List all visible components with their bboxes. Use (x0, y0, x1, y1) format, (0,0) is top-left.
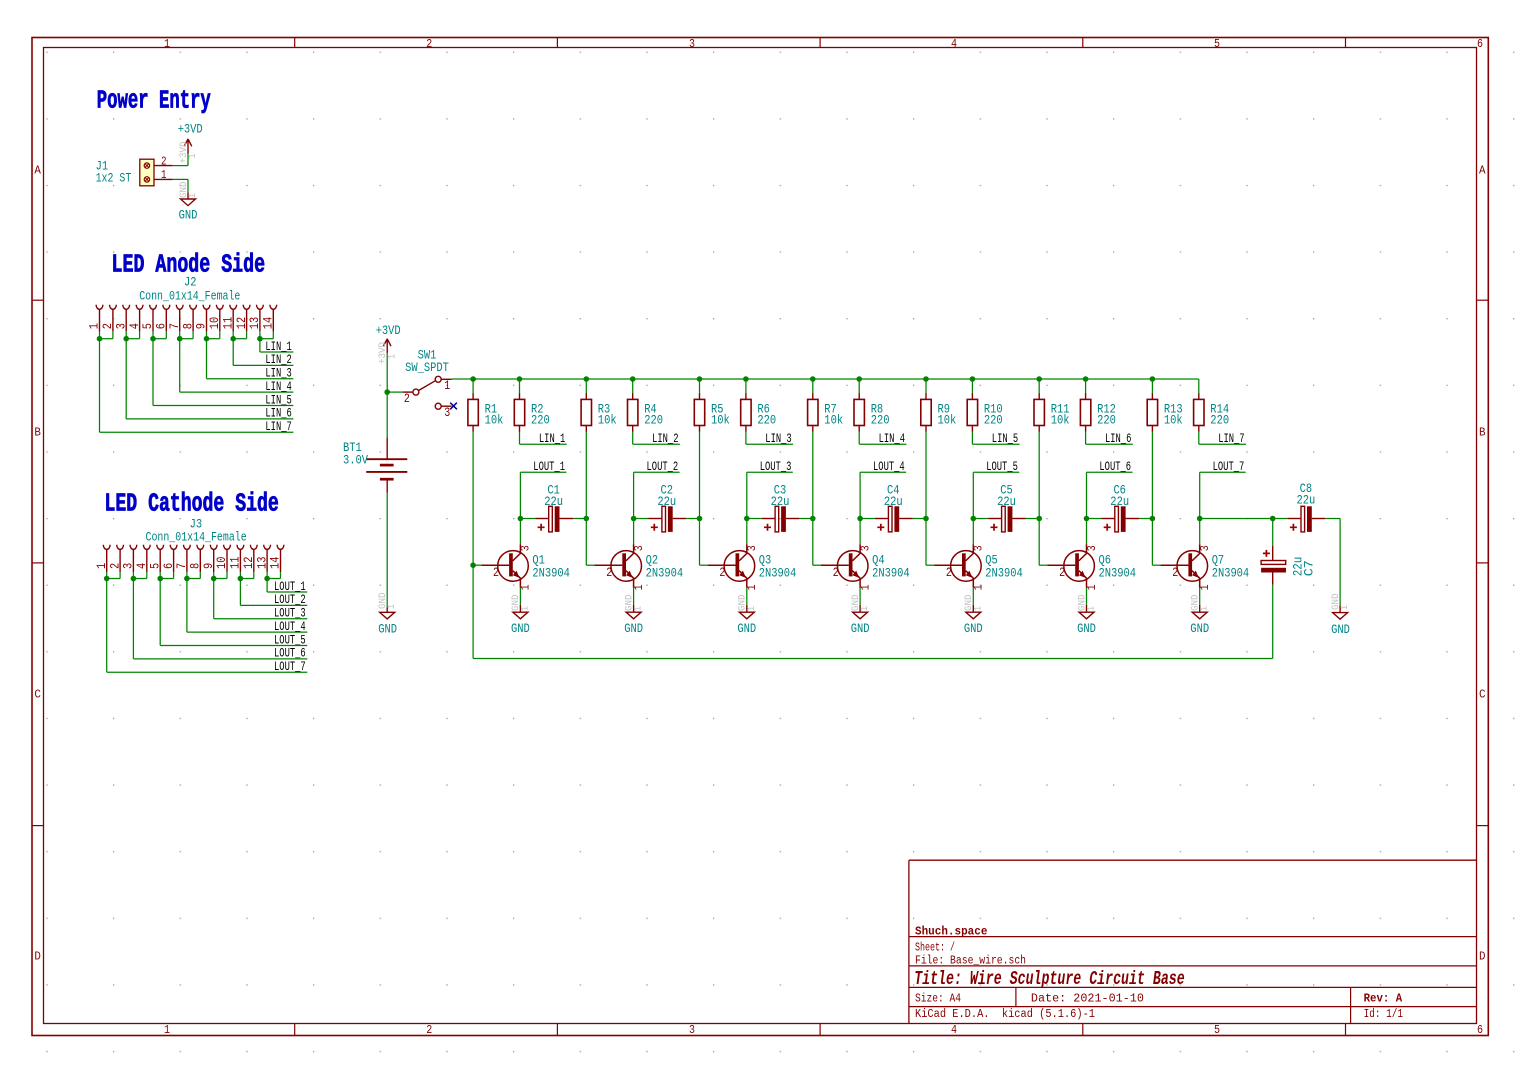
svg-text:LOUT_5: LOUT_5 (986, 459, 1018, 474)
svg-text:Date: 2021-01-10: Date: 2021-01-10 (1031, 993, 1144, 1006)
svg-text:LIN_1: LIN_1 (539, 431, 566, 446)
connector J3 (103, 545, 284, 572)
svg-text:LED Cathode Side: LED Cathode Side (105, 490, 279, 519)
capacitor C5 22u (988, 518, 1001, 520)
transistor Q7 2N3904 (1177, 551, 1208, 582)
svg-text:C: C (1479, 689, 1486, 702)
wire R11 to Q6 base (1039, 432, 1047, 565)
resistor R1 10k (468, 399, 478, 425)
svg-text:J2: J2 (184, 275, 197, 290)
svg-text:2: 2 (719, 565, 725, 580)
junction J3 pin7 (184, 576, 190, 582)
svg-text:2N3904: 2N3904 (872, 565, 910, 580)
ground GND (Q4) (859, 605, 861, 612)
resistor R13 10k (1147, 399, 1157, 425)
svg-text:220: 220 (757, 413, 776, 428)
svg-text:10k: 10k (824, 413, 843, 428)
svg-text:GND: GND (1077, 621, 1096, 636)
resistor R9 10k (921, 399, 931, 425)
svg-text:220: 220 (644, 413, 663, 428)
wire R13 to Q7 base (1152, 432, 1160, 565)
svg-text:Title: Wire Sculpture Circuit: Title: Wire Sculpture Circuit Base (914, 968, 1184, 990)
wire R2 to LIN_1 (520, 432, 567, 444)
capacitor C8 22u (1288, 518, 1301, 520)
junction J3 pin11 (238, 576, 244, 582)
junction cap C1 right (584, 516, 590, 522)
wire R4 to LIN_2 (633, 432, 680, 444)
wire SW1 pin1 to rail (452, 378, 474, 380)
svg-text:GND: GND (1190, 621, 1209, 636)
wire junction to SW1 pin2 (387, 391, 402, 393)
svg-text:6: 6 (1477, 1024, 1483, 1037)
svg-text:22u: 22u (771, 494, 790, 509)
svg-text:+3VD: +3VD (376, 323, 401, 338)
transistor Q4 2N3904 (837, 551, 868, 582)
svg-text:LOUT_3: LOUT_3 (274, 606, 306, 621)
wire J2 pin7-pin8 pair (180, 331, 294, 392)
svg-text:Conn_01x14_Female: Conn_01x14_Female (146, 530, 247, 545)
svg-text:1: 1 (161, 168, 167, 182)
svg-text:14: 14 (268, 556, 283, 569)
junction rail at R5 (697, 376, 703, 382)
svg-text:Size: A4: Size: A4 (915, 993, 961, 1006)
svg-text:3.0V: 3.0V (343, 453, 368, 468)
wire +3VD to junction (386, 353, 388, 392)
junction J3 pin3 (131, 576, 137, 582)
resistor R3 10k (581, 399, 591, 425)
svg-text:1: 1 (1339, 605, 1351, 610)
svg-text:4: 4 (951, 1024, 957, 1037)
resistor R12 220 (1080, 399, 1090, 425)
svg-text:LIN_5: LIN_5 (992, 431, 1018, 446)
battery BT1 (366, 438, 407, 493)
wire rail to R13 (1151, 379, 1153, 393)
wire rail to R8 (858, 379, 860, 393)
capacitor C3 22u (762, 518, 775, 520)
wire C7 bottom to bus (1272, 585, 1274, 659)
wire top rail (473, 378, 1199, 380)
J2 pin numbers (87, 317, 276, 330)
wire R12 to LIN_6 (1086, 432, 1133, 444)
wire J2 pin5-pin6 pair (153, 331, 293, 405)
svg-text:14: 14 (261, 317, 276, 330)
svg-text:1: 1 (187, 193, 199, 198)
resistor R5 10k (694, 399, 704, 425)
svg-text:5: 5 (1214, 38, 1220, 51)
svg-text:File: Base_wire.sch: File: Base_wire.sch (915, 955, 1026, 968)
connector J2 (96, 305, 277, 332)
svg-text:LOUT_1: LOUT_1 (533, 459, 565, 474)
wire emitter Q4 to GND (859, 588, 861, 605)
junction J3 pin13 (264, 576, 270, 582)
svg-text:1: 1 (386, 604, 398, 609)
svg-text:1: 1 (746, 606, 758, 611)
svg-text:Power Entry: Power Entry (97, 86, 211, 115)
wire cap C3 left (747, 518, 762, 520)
wire rail to R3 (585, 379, 587, 393)
junction cap C4 right (923, 516, 929, 522)
wire J3 pin11-pin12 pair (240, 572, 307, 605)
transistor Q1 2N3904 (498, 551, 529, 582)
svg-text:GND: GND (511, 621, 530, 636)
wire junction to BT1 (386, 392, 388, 438)
wire label LOUT_6 stub (1087, 472, 1133, 518)
wire J2 pin9-pin10 pair (207, 331, 294, 378)
svg-text:GND: GND (964, 621, 983, 636)
junction rail at R4 (630, 376, 636, 382)
wire BT1 to GND (386, 493, 388, 608)
svg-text:LIN_3: LIN_3 (765, 431, 791, 446)
svg-text:5: 5 (1214, 1024, 1220, 1037)
capacitor C2 22u (649, 518, 662, 520)
wire cap C2 left (634, 518, 649, 520)
svg-text:3: 3 (1085, 545, 1099, 551)
wire cap C4 left (860, 518, 875, 520)
wire emitter Q5 to GND (972, 588, 974, 605)
capacitor C1 22u (535, 518, 548, 520)
power +3VD (J1) (184, 139, 192, 154)
svg-text:Shuch.space: Shuch.space (915, 925, 987, 939)
svg-text:GND: GND (179, 207, 198, 222)
wire rail to R4 (632, 379, 634, 393)
wire cap C2 right to R3 column (686, 518, 699, 520)
wire collector Q4 (859, 519, 861, 545)
wire label LOUT_3 stub (747, 472, 793, 518)
svg-text:220: 220 (871, 413, 890, 428)
junction J2 pin3 (123, 336, 129, 342)
wire label LOUT_2 stub (634, 472, 680, 518)
transistor Q3 2N3904 (724, 551, 755, 582)
connector J1 (140, 159, 173, 186)
wire base pin Q1 (481, 564, 509, 566)
svg-text:220: 220 (1210, 413, 1229, 428)
junction rail at R10 (970, 376, 976, 382)
wire cap C1 left (520, 518, 535, 520)
wire collector Q7 (1199, 519, 1201, 545)
svg-text:LIN_5: LIN_5 (265, 392, 291, 407)
svg-text:2: 2 (833, 565, 839, 580)
svg-text:2N3904: 2N3904 (532, 565, 570, 580)
svg-text:10k: 10k (938, 413, 957, 428)
junction rail at R2 (517, 376, 523, 382)
svg-text:C7: C7 (1302, 560, 1317, 576)
junction C7 top / C8 (1270, 516, 1276, 522)
svg-text:3: 3 (519, 545, 533, 551)
svg-text:+3VD: +3VD (178, 142, 190, 164)
resistor R7 10k (808, 399, 818, 425)
svg-text:LOUT_1: LOUT_1 (274, 579, 306, 594)
wire base pin Q5 (934, 564, 962, 566)
svg-text:LIN_7: LIN_7 (1218, 431, 1244, 446)
resistor R14 220 (1194, 399, 1204, 425)
svg-text:LOUT_4: LOUT_4 (873, 459, 905, 474)
svg-text:GND: GND (737, 621, 756, 636)
svg-text:2: 2 (946, 565, 952, 580)
transistor Q6 2N3904 (1064, 551, 1095, 582)
frame column numbers top (164, 38, 1483, 51)
wire R3 to Q2 base (586, 432, 594, 565)
wire J3 pin1-pin2 pair (107, 572, 308, 672)
ground GND (Q3) (746, 605, 748, 612)
frame column numbers bottom (164, 1024, 1483, 1037)
junction rail at R3 (584, 376, 590, 382)
svg-text:220: 220 (1097, 413, 1116, 428)
svg-text:4: 4 (951, 38, 957, 51)
svg-text:SW_SPDT: SW_SPDT (405, 360, 449, 375)
wire rail to R9 (925, 379, 927, 393)
junction rail at R13 (1150, 376, 1156, 382)
svg-text:1: 1 (972, 606, 984, 611)
junction J2 pin1 (97, 336, 103, 342)
svg-text:D: D (1479, 951, 1486, 964)
junction cap C6 right (1150, 516, 1156, 522)
svg-text:3: 3 (745, 545, 759, 551)
switch SW1 (403, 376, 452, 409)
svg-text:10k: 10k (1051, 413, 1070, 428)
wire collector Q6 (1086, 519, 1088, 545)
wire bottom bus (473, 658, 1273, 660)
svg-text:2N3904: 2N3904 (985, 565, 1023, 580)
wire base pin Q2 (595, 564, 623, 566)
wire emitter Q1 to GND (519, 588, 521, 605)
svg-text:1: 1 (164, 1024, 170, 1037)
svg-text:LOUT_2: LOUT_2 (274, 592, 306, 607)
wire emitter Q6 to GND (1086, 588, 1088, 605)
junction cap row at LOUT_1 (518, 516, 524, 522)
svg-text:1: 1 (633, 606, 645, 611)
wire R9 to Q5 base (926, 432, 934, 565)
ground GND (Q6) (1086, 605, 1088, 612)
wire J3 pin7-pin8 pair (187, 572, 307, 632)
svg-text:LOUT_5: LOUT_5 (274, 632, 306, 647)
svg-text:Rev: A: Rev: A (1364, 992, 1403, 1006)
svg-text:A: A (1479, 165, 1486, 178)
wire J3 pin13-pin14 pair (267, 572, 307, 592)
frame row letters left (34, 165, 41, 964)
resistor R11 10k (1034, 399, 1044, 425)
svg-text:6: 6 (1477, 38, 1483, 51)
junction cap row at LOUT_5 (971, 516, 977, 522)
svg-text:2N3904: 2N3904 (1212, 565, 1250, 580)
wire rail to R11 (1038, 379, 1040, 393)
svg-text:LOUT_6: LOUT_6 (274, 646, 306, 661)
svg-text:2N3904: 2N3904 (646, 565, 684, 580)
wire collector Q5 (972, 519, 974, 545)
svg-text:LIN_2: LIN_2 (652, 431, 678, 446)
wire base pin Q6 (1047, 564, 1075, 566)
wire cap C5 left (973, 518, 988, 520)
wire R1 to bottom bus / Q1 base tap (472, 432, 474, 659)
wire cap C6 right to R11 column (1139, 518, 1152, 520)
wire base pin Q7 (1161, 564, 1189, 566)
wire rail to R5 (699, 379, 701, 393)
title block box (909, 860, 1477, 1023)
svg-text:3: 3 (858, 545, 872, 551)
svg-text:Conn_01x14_Female: Conn_01x14_Female (139, 289, 240, 304)
svg-text:LOUT_7: LOUT_7 (1213, 459, 1245, 474)
wire label LOUT_5 stub (973, 472, 1019, 518)
wire R14 to LIN_7 (1199, 432, 1246, 444)
transistor Q2 2N3904 (611, 551, 642, 582)
wire cap C1 right to R1 column (573, 518, 586, 520)
junction cap row at LOUT_6 (1084, 516, 1090, 522)
capacitor C7 22u (vertical) (1261, 519, 1286, 585)
svg-text:2: 2 (493, 565, 499, 580)
resistor R6 220 (741, 399, 751, 425)
svg-text:3: 3 (632, 545, 646, 551)
junction cap row at LOUT_7 (1197, 516, 1203, 522)
wire J2 pin1-pin2 pair (100, 331, 294, 432)
svg-text:B: B (1479, 427, 1486, 440)
svg-text:1: 1 (1199, 606, 1211, 611)
wire cap C3 right to R5 column (799, 518, 812, 520)
junction J2 pin7 (177, 336, 183, 342)
svg-text:3: 3 (972, 545, 986, 551)
svg-text:1: 1 (519, 606, 531, 611)
svg-text:2: 2 (426, 1024, 432, 1037)
svg-text:2: 2 (1172, 565, 1178, 580)
resistor R8 220 (854, 399, 864, 425)
junction rail at R8 (856, 376, 862, 382)
wire J1 pin1 to GND (173, 179, 188, 192)
svg-text:KiCad E.D.A. kicad (5.1.6)-1: KiCad E.D.A. kicad (5.1.6)-1 (915, 1008, 1095, 1021)
wire rail to R10 (971, 379, 973, 393)
svg-text:LOUT_2: LOUT_2 (647, 459, 679, 474)
ground GND (Q2) (633, 605, 635, 612)
wire rail to R1 (472, 379, 474, 393)
wire label LOUT_4 stub (860, 472, 906, 518)
svg-text:1: 1 (164, 38, 170, 51)
ground GND (C8) (1339, 606, 1341, 613)
svg-text:1: 1 (444, 378, 450, 393)
wire J3 pin5-pin6 pair (160, 572, 307, 645)
wire emitter Q2 to GND (633, 588, 635, 605)
junction at +3VD/SW1/BT1 (384, 389, 390, 395)
wire J3 pin3-pin4 pair (133, 572, 307, 659)
junction cap row at LOUT_3 (744, 516, 750, 522)
power +3VD (main) (383, 339, 391, 354)
svg-text:22u: 22u (1297, 493, 1316, 508)
svg-text:GND: GND (624, 621, 643, 636)
wire rail to R2 (519, 379, 521, 393)
frame row letters right (1479, 165, 1486, 964)
svg-text:10k: 10k (485, 413, 504, 428)
wire label LOUT_1 stub (520, 472, 566, 518)
wire collector Q2 (633, 519, 635, 545)
wire R8 to LIN_4 (859, 432, 906, 444)
svg-text:22u: 22u (544, 494, 563, 509)
ground GND (BT1) (386, 607, 388, 612)
wire rail to R7 (812, 379, 814, 393)
svg-text:LOUT_3: LOUT_3 (760, 459, 792, 474)
svg-text:22u: 22u (1110, 494, 1129, 509)
junction cap C3 right (810, 516, 816, 522)
svg-text:LIN_6: LIN_6 (265, 406, 291, 421)
svg-text:3: 3 (689, 1024, 695, 1037)
svg-text:2: 2 (1059, 565, 1065, 580)
svg-text:1: 1 (386, 354, 398, 359)
junction J2 pin13 (257, 336, 263, 342)
capacitor C4 22u (875, 518, 888, 520)
wire Q1 base (473, 564, 481, 566)
ground GND (Q7) (1199, 605, 1201, 612)
svg-text:GND: GND (851, 621, 870, 636)
wire collector Q3 (746, 519, 748, 545)
svg-text:A: A (34, 165, 41, 178)
svg-text:2: 2 (426, 38, 432, 51)
wire rail to R12 (1085, 379, 1087, 393)
svg-text:1: 1 (1086, 606, 1098, 611)
J3 pin numbers (94, 556, 283, 569)
wire emitter Q7 to GND (1199, 588, 1201, 605)
ground GND (J1) (187, 192, 189, 199)
junction J3 pin1 (104, 576, 110, 582)
svg-text:LOUT_4: LOUT_4 (274, 619, 306, 634)
svg-text:GND: GND (1331, 622, 1350, 637)
transistor Q5 2N3904 (951, 551, 982, 582)
svg-text:1x2 ST: 1x2 ST (96, 171, 132, 186)
junction rail at R6 (743, 376, 749, 382)
wire J2 pin11-pin12 pair (233, 331, 293, 365)
svg-text:22u: 22u (657, 494, 676, 509)
svg-text:LOUT_7: LOUT_7 (274, 659, 306, 674)
wire base pin Q3 (708, 564, 736, 566)
wire J1 pin2 to +3VD (173, 153, 188, 166)
svg-text:LIN_1: LIN_1 (265, 339, 292, 354)
svg-text:22u: 22u (997, 494, 1016, 509)
svg-text:3: 3 (1198, 545, 1212, 551)
resistor R2 220 (514, 399, 524, 425)
svg-text:2N3904: 2N3904 (1099, 565, 1137, 580)
wire R7 to Q4 base (813, 432, 821, 565)
svg-text:LIN_7: LIN_7 (265, 419, 291, 434)
junction J3 pin9 (211, 576, 217, 582)
svg-text:D: D (34, 951, 41, 964)
svg-text:10k: 10k (598, 413, 617, 428)
junction rail at R1 (470, 376, 476, 382)
wire C8 right to GND (1325, 519, 1340, 606)
svg-text:2: 2 (606, 565, 612, 580)
wire cap C6 left (1087, 518, 1102, 520)
svg-text:Id: 1/1: Id: 1/1 (1364, 1008, 1403, 1021)
svg-text:2N3904: 2N3904 (759, 565, 797, 580)
wire J2 pin3-pin4 pair (126, 331, 293, 419)
svg-text:LIN_6: LIN_6 (1105, 431, 1131, 446)
svg-text:220: 220 (984, 413, 1003, 428)
junction J2 pin9 (204, 336, 210, 342)
wire label LOUT_7 stub (1200, 472, 1246, 518)
junction rail at R9 (923, 376, 929, 382)
wire R10 to LIN_5 (972, 432, 1019, 444)
svg-text:LIN_4: LIN_4 (265, 379, 292, 394)
ground GND (Q5) (972, 605, 974, 612)
junction cap C5 right (1036, 516, 1042, 522)
svg-text:10k: 10k (711, 413, 730, 428)
junction J3 pin5 (157, 576, 163, 582)
wire R5 to Q3 base (700, 432, 708, 565)
svg-text:GND: GND (378, 622, 397, 637)
resistor R10 220 (967, 399, 977, 425)
no-connect X on SW1 pin 3 (450, 403, 457, 410)
junction cap row at LOUT_4 (857, 516, 863, 522)
svg-text:3: 3 (444, 405, 450, 420)
svg-text:2: 2 (404, 391, 410, 406)
junction J2 pin11 (230, 336, 236, 342)
wire cap C5 right to R9 column (1026, 518, 1039, 520)
svg-text:10k: 10k (1164, 413, 1183, 428)
svg-text:1: 1 (187, 154, 199, 159)
ground GND (Q1) (519, 605, 521, 612)
